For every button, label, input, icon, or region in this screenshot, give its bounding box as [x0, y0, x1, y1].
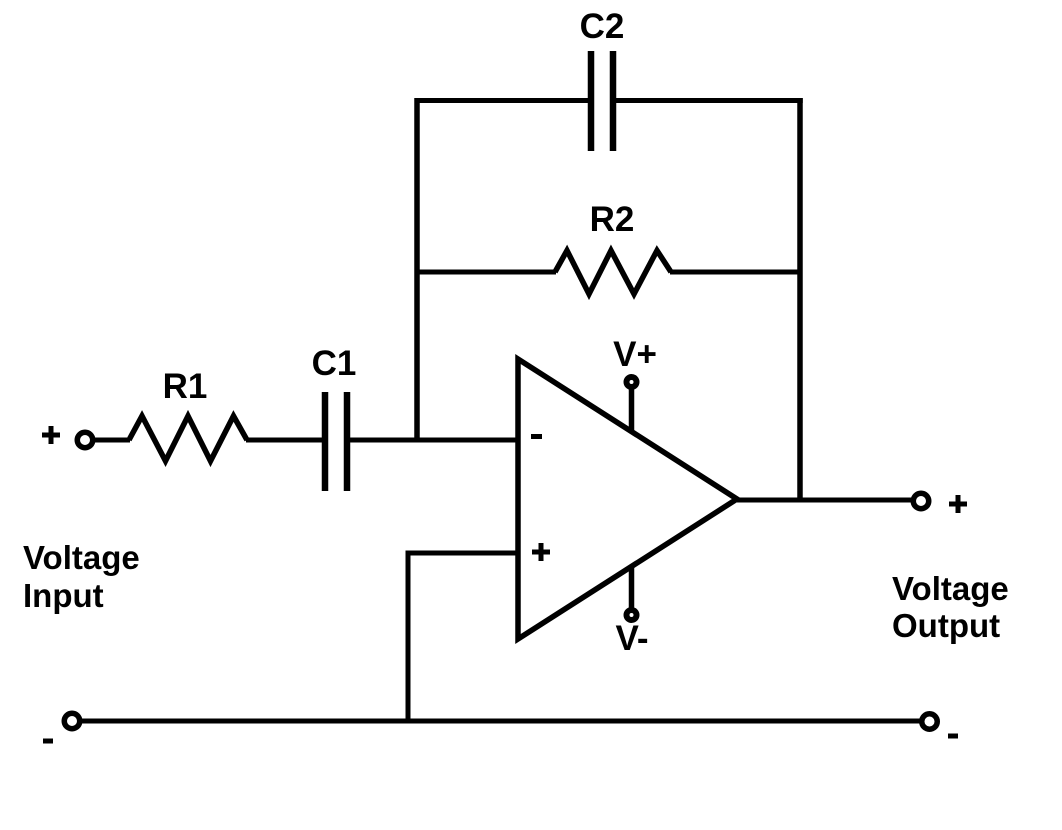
wire op-amp output [737, 498, 911, 503]
wire R1 to C1 [246, 438, 322, 443]
label input plus [42, 426, 60, 444]
wire V- pin [629, 568, 635, 612]
svg-text:V-: V- [615, 619, 648, 658]
svg-text:Voltage: Voltage [892, 570, 1009, 607]
label output plus [949, 495, 967, 513]
svg-text:Input: Input [23, 577, 104, 614]
terminal bottom-right circle [922, 714, 938, 730]
label bottom-left minus [43, 739, 53, 744]
wire ground vertical [406, 551, 411, 722]
svg-text:R1: R1 [163, 367, 208, 406]
svg-text:Voltage: Voltage [23, 539, 140, 576]
wire V+ pin [629, 385, 635, 430]
label Voltage Input [23, 539, 140, 614]
label op-amp minus [531, 434, 542, 439]
svg-text:R2: R2 [590, 200, 635, 239]
label Voltage Output [892, 570, 1009, 644]
wire R2 left lead [417, 270, 556, 275]
op-amp U1 [518, 359, 737, 639]
wire C1 to op-amp inverting input [350, 438, 518, 443]
resistor R2 [555, 251, 671, 295]
svg-text:C2: C2 [580, 7, 625, 46]
wire left feedback vertical [414, 98, 420, 440]
svg-text:V+: V+ [613, 335, 657, 374]
capacitor C2 [591, 51, 613, 151]
wire bottom rail [82, 719, 920, 724]
terminal output circle [913, 493, 929, 509]
wire top feedback right segment [616, 98, 803, 103]
terminal input circle [77, 432, 93, 448]
svg-text:C1: C1 [312, 344, 357, 383]
terminal V+ circle [627, 377, 637, 387]
label bottom-right minus [948, 734, 958, 739]
capacitor C1 [325, 392, 347, 491]
resistor R1 [129, 416, 247, 461]
terminal V- circle [627, 610, 637, 620]
wire R2 right lead [670, 270, 800, 275]
wire top feedback left segment [415, 98, 589, 103]
wire non-inverting input [408, 551, 518, 556]
svg-text:Output: Output [892, 607, 1000, 644]
wire input lead [95, 438, 130, 443]
label op-amp plus [532, 543, 550, 561]
wire right feedback vertical [797, 98, 803, 500]
terminal bottom-left circle [64, 713, 80, 729]
